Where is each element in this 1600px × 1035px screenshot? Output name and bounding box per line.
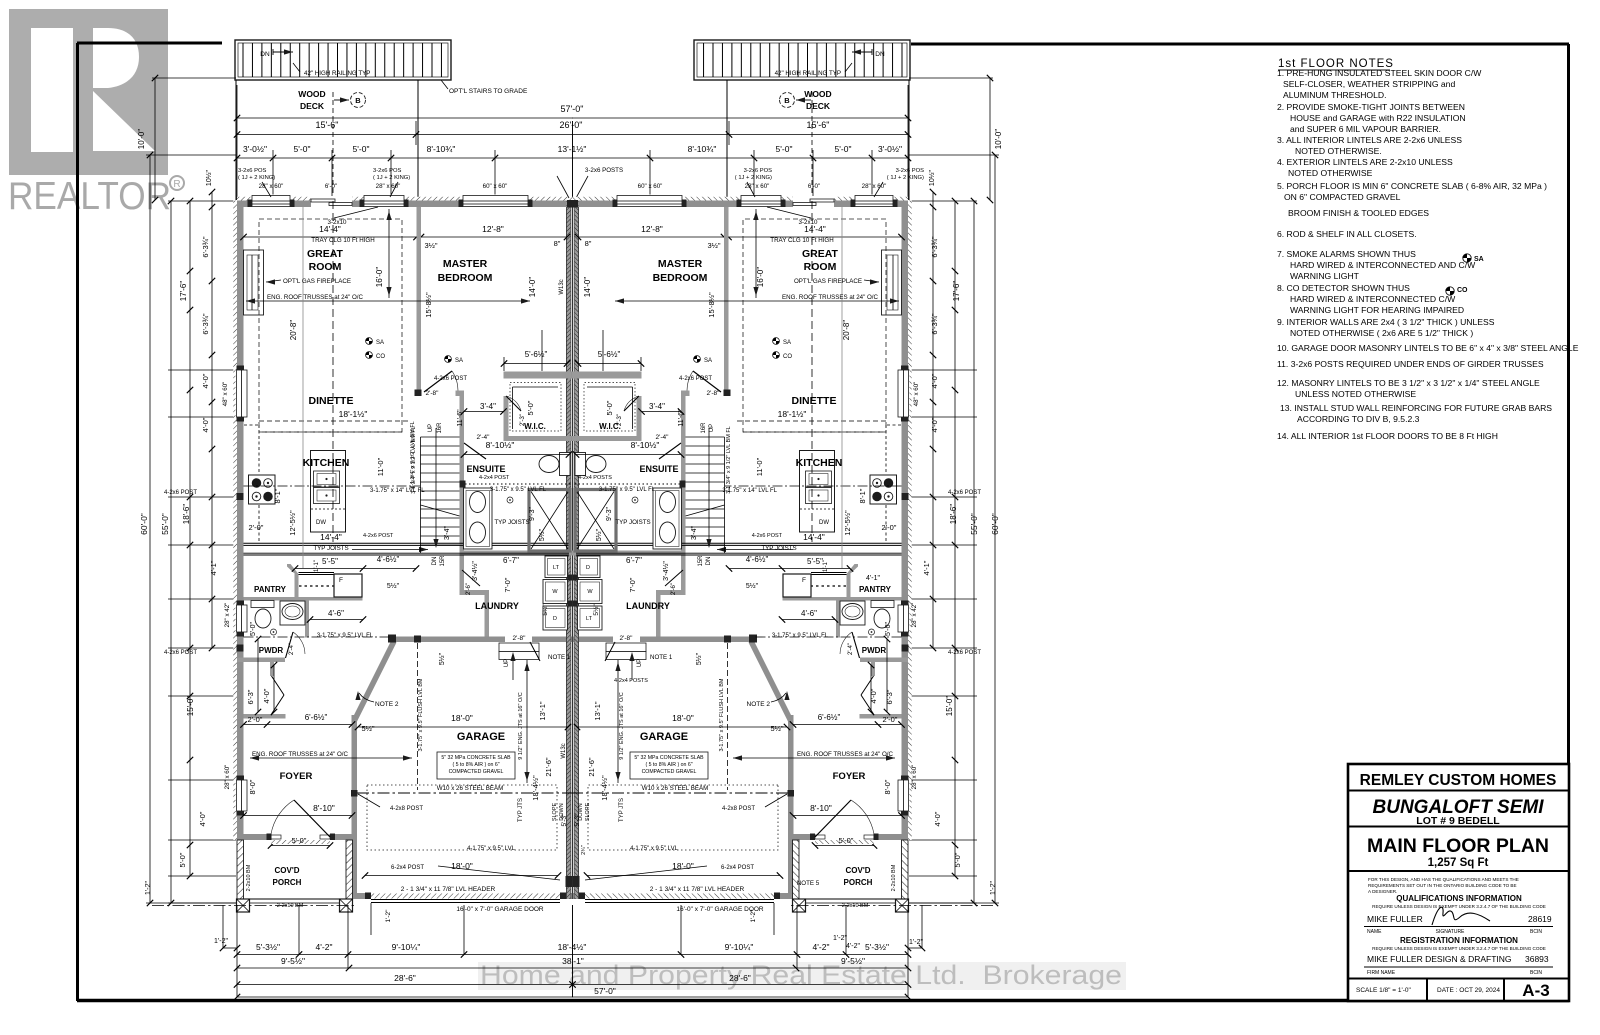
svg-text:1'-2": 1'-2" [750, 909, 757, 923]
svg-text:1'-2": 1'-2" [214, 938, 228, 945]
svg-text:PORCH: PORCH [844, 878, 873, 887]
svg-text:REQUIRE UNLESS DESIGN IS EXEMP: REQUIRE UNLESS DESIGN IS EXEMPT UNDER 3.… [1372, 904, 1546, 909]
svg-text:5'-0": 5'-0" [353, 144, 370, 154]
svg-text:4-2x4 POSTS: 4-2x4 POSTS [578, 475, 612, 481]
svg-text:10½": 10½" [205, 169, 213, 186]
smoke alarm symbols [366, 338, 373, 345]
svg-text:4-2x4 POST: 4-2x4 POST [479, 475, 510, 481]
svg-text:6. ROD & SHELF IN ALL CLOSETS: 6. ROD & SHELF IN ALL CLOSETS. [1277, 229, 1417, 239]
svg-text:SA: SA [783, 340, 791, 346]
svg-text:8'-10¾": 8'-10¾" [427, 144, 456, 154]
svg-text:DINETTE: DINETTE [309, 395, 354, 407]
svg-text:9'-10¼": 9'-10¼" [392, 942, 421, 952]
svg-text:DINETTE: DINETTE [792, 395, 837, 407]
svg-text:9. INTERIOR WALLS ARE 2x4 ( 3: 9. INTERIOR WALLS ARE 2x4 ( 3 1/2" THICK… [1277, 317, 1495, 327]
svg-text:5'-0": 5'-0" [605, 400, 614, 415]
svg-text:3-1.75" x 9.5" LVL FL: 3-1.75" x 9.5" LVL FL [772, 633, 829, 639]
svg-text:4'-2": 4'-2" [316, 942, 333, 952]
svg-text:F: F [802, 577, 806, 584]
svg-text:MASTER: MASTER [658, 258, 703, 270]
opt'l stairs leader [434, 71, 448, 89]
svg-text:2'-6": 2'-6" [671, 583, 677, 595]
svg-text:10½": 10½" [928, 169, 936, 186]
svg-text:3-1.75" x 14" LVL FL: 3-1.75" x 14" LVL FL [722, 488, 777, 494]
svg-text:4'-0": 4'-0" [930, 373, 939, 388]
svg-text:NOTED OTHERWISE: NOTED OTHERWISE [1288, 168, 1373, 178]
svg-text:BEDROOM: BEDROOM [653, 272, 708, 284]
svg-text:4-1.75" x 9.5" LVL: 4-1.75" x 9.5" LVL [467, 846, 516, 852]
svg-text:8'-10½": 8'-10½" [486, 440, 515, 450]
svg-text:60" x 60": 60" x 60" [483, 183, 508, 190]
svg-text:4. EXTERIOR LINTELS ARE 2-2x1: 4. EXTERIOR LINTELS ARE 2-2x10 UNLESS [1277, 157, 1453, 167]
svg-text:8'-10": 8'-10" [810, 803, 832, 813]
svg-text:TYP JTS: TYP JTS [619, 798, 625, 822]
svg-text:16'-0": 16'-0" [756, 267, 765, 288]
svg-text:3-2x6 POS: 3-2x6 POS [744, 168, 772, 174]
svg-text:14'-0": 14'-0" [583, 277, 592, 298]
svg-text:5'-0": 5'-0" [835, 144, 852, 154]
svg-text:LOT # 9 BEDELL: LOT # 9 BEDELL [1416, 815, 1500, 827]
svg-text:18'-6": 18'-6" [949, 504, 958, 525]
svg-text:HARD WIRED & INTERCONNECTED AN: HARD WIRED & INTERCONNECTED AND C/W [1290, 260, 1476, 270]
svg-text:5'-3½": 5'-3½" [256, 942, 280, 952]
svg-text:FIRM NAME: FIRM NAME [1367, 970, 1396, 976]
svg-text:TYP JOISTS: TYP JOISTS [494, 519, 529, 526]
svg-text:REALTOR: REALTOR [8, 175, 171, 218]
svg-text:5'-0": 5'-0" [294, 144, 311, 154]
svg-text:15R: 15R [698, 555, 704, 567]
svg-text:4'-6½": 4'-6½" [377, 555, 400, 564]
svg-text:NOTE 5: NOTE 5 [797, 880, 820, 887]
svg-text:GREAT: GREAT [802, 248, 839, 260]
svg-text:SA: SA [1474, 256, 1484, 263]
svg-text:12. MASONRY LINTELS TO BE 3 1: 12. MASONRY LINTELS TO BE 3 1/2" x 3 1/2… [1277, 378, 1540, 388]
svg-text:5'-0": 5'-0" [776, 144, 793, 154]
svg-text:D: D [586, 565, 590, 571]
svg-text:TYP JOISTS: TYP JOISTS [615, 519, 650, 526]
svg-text:60'-0": 60'-0" [139, 513, 149, 535]
svg-text:28" x 60": 28" x 60" [862, 183, 887, 190]
svg-text:8'-0": 8'-0" [248, 779, 257, 794]
svg-text:3'-4½": 3'-4½" [471, 561, 479, 581]
svg-text:F: F [339, 577, 343, 584]
svg-text:5½": 5½" [361, 724, 374, 733]
svg-text:OPT'L GAS FIREPLACE: OPT'L GAS FIREPLACE [794, 278, 862, 285]
svg-text:3-1.75" x 9.5" LVL FL: 3-1.75" x 9.5" LVL FL [490, 487, 547, 493]
svg-text:DATE : OCT 29, 2024: DATE : OCT 29, 2024 [1437, 987, 1500, 994]
svg-text:DECK: DECK [806, 101, 831, 111]
svg-text:5'-5": 5'-5" [322, 557, 338, 566]
svg-text:TRAY CLG 10 Ft HIGH: TRAY CLG 10 Ft HIGH [770, 237, 833, 244]
svg-text:3'-0½": 3'-0½" [243, 144, 267, 154]
svg-text:38'-1": 38'-1" [562, 956, 584, 966]
svg-text:4-2x6 POST: 4-2x6 POST [948, 650, 981, 656]
svg-text:REGISTRATION INFORMATION: REGISTRATION INFORMATION [1400, 936, 1518, 945]
svg-text:WOOD: WOOD [804, 89, 831, 99]
svg-text:11'-6": 11'-6" [678, 409, 685, 427]
svg-text:3'-0½": 3'-0½" [878, 144, 902, 154]
svg-text:DN: DN [260, 51, 270, 58]
svg-text:5'-0": 5'-0" [526, 400, 535, 415]
svg-text:18'-0": 18'-0" [451, 861, 473, 871]
svg-text:ENG. ROOF TRUSSES at 24" O/C: ENG. ROOF TRUSSES at 24" O/C [267, 294, 363, 301]
svg-text:5'-3": 5'-3" [561, 813, 568, 827]
svg-text:4'-6": 4'-6" [328, 609, 344, 618]
svg-text:3-1.75" x 9.5" LVL FL: 3-1.75" x 9.5" LVL FL [599, 487, 656, 493]
svg-text:1'-2": 1'-2" [833, 935, 847, 942]
svg-text:5'-6½": 5'-6½" [598, 350, 621, 359]
svg-text:15'-0": 15'-0" [186, 696, 195, 717]
svg-text:COV'D: COV'D [845, 866, 870, 875]
svg-text:2-2x10 BM: 2-2x10 BM [277, 903, 304, 909]
svg-text:7'-0": 7'-0" [628, 577, 637, 592]
svg-text:20'-8": 20'-8" [289, 320, 298, 341]
svg-text:MIKE FULLER DESIGN & DRAFTING: MIKE FULLER DESIGN & DRAFTING [1367, 954, 1512, 964]
svg-text:6'-7": 6'-7" [503, 556, 519, 565]
svg-text:REQUIREMENTS SET OUT IN THE ON: REQUIREMENTS SET OUT IN THE ONTARIO BUIL… [1368, 883, 1517, 888]
svg-text:18'-4½": 18'-4½" [600, 775, 609, 801]
svg-text:4'-1": 4'-1" [866, 575, 880, 582]
svg-text:5'-0": 5'-0" [953, 852, 962, 867]
svg-text:4-2x6 POST: 4-2x6 POST [948, 490, 981, 496]
left unit plan graphics [146, 40, 588, 1000]
svg-text:NOTE 2: NOTE 2 [375, 701, 399, 708]
svg-text:6-2x4 POST: 6-2x4 POST [721, 865, 754, 871]
svg-text:18'-6": 18'-6" [182, 504, 191, 525]
svg-text:3'-4½": 3'-4½" [662, 561, 670, 581]
svg-text:5" 32 MPa CONCRETE SLAB: 5" 32 MPa CONCRETE SLAB [634, 755, 704, 761]
svg-text:UNLESS NOTED OTHERWISE: UNLESS NOTED OTHERWISE [1295, 389, 1416, 399]
svg-text:4-1.75" x 9.5" LVL: 4-1.75" x 9.5" LVL [630, 846, 679, 852]
svg-text:SLOPE: SLOPE [585, 802, 591, 821]
svg-text:NOTE 2: NOTE 2 [747, 701, 771, 708]
svg-text:16R: 16R [437, 422, 443, 434]
svg-text:2'-0": 2'-0" [883, 715, 898, 724]
svg-text:13'-1": 13'-1" [538, 701, 547, 720]
svg-text:28" x 60": 28" x 60" [745, 183, 770, 190]
svg-text:2'-8": 2'-8" [620, 635, 634, 642]
svg-text:GARAGE: GARAGE [457, 731, 505, 743]
svg-text:DW: DW [819, 520, 829, 526]
svg-text:A-3: A-3 [1522, 981, 1549, 1000]
svg-text:TYP JOISTS: TYP JOISTS [761, 545, 796, 552]
svg-text:55'-0": 55'-0" [160, 513, 170, 535]
svg-text:2'-0": 2'-0" [248, 715, 263, 724]
svg-text:28" x 42": 28" x 42" [911, 603, 918, 628]
svg-text:UP: UP [709, 424, 715, 432]
svg-text:UP: UP [637, 659, 643, 667]
svg-text:W: W [552, 589, 558, 595]
svg-text:2'-0": 2'-0" [249, 523, 264, 532]
svg-text:16R: 16R [701, 422, 707, 434]
svg-text:4'-1": 4'-1" [209, 560, 218, 575]
svg-text:4-2x6 POST: 4-2x6 POST [363, 533, 394, 539]
svg-text:CO: CO [783, 354, 792, 360]
svg-text:REMLEY CUSTOM HOMES: REMLEY CUSTOM HOMES [1360, 772, 1557, 789]
svg-text:5'-0": 5'-0" [839, 836, 854, 845]
brokerage watermark [478, 960, 1126, 990]
svg-text:2'-8": 2'-8" [707, 390, 721, 397]
svg-text:6'-3¾": 6'-3¾" [201, 236, 210, 258]
svg-text:WARNING LIGHT FOR HEARING IMPA: WARNING LIGHT FOR HEARING IMPAIRED [1290, 305, 1464, 315]
svg-text:UP: UP [428, 424, 434, 432]
svg-text:3-1.75" x 9.5" LVL FL: 3-1.75" x 9.5" LVL FL [317, 633, 374, 639]
svg-text:GREAT: GREAT [307, 248, 344, 260]
svg-text:3-1.75" x 14" LVL FL: 3-1.75" x 14" LVL FL [370, 488, 425, 494]
svg-text:2'-3": 2'-3" [617, 414, 623, 426]
svg-text:HOUSE and GARAGE with R22 INSU: HOUSE and GARAGE with R22 INSULATION [1290, 113, 1466, 123]
svg-text:15'-8½": 15'-8½" [424, 292, 433, 318]
svg-text:2 - 1 3/4" x 11 7/8" LVL HEADE: 2 - 1 3/4" x 11 7/8" LVL HEADER [401, 886, 496, 893]
svg-text:5½": 5½" [770, 724, 783, 733]
svg-text:9 1/2" ENG. JTS at 16" O/C: 9 1/2" ENG. JTS at 16" O/C [518, 692, 524, 760]
svg-text:12'-5½": 12'-5½" [288, 510, 297, 536]
svg-text:4'-2": 4'-2" [813, 942, 830, 952]
svg-text:4-2x6 POST: 4-2x6 POST [752, 533, 783, 539]
svg-text:FOR THIS DESIGN, AND HAS THE Q: FOR THIS DESIGN, AND HAS THE QUALIFICATI… [1368, 877, 1519, 882]
svg-text:SA: SA [376, 340, 384, 346]
svg-text:12'-8": 12'-8" [641, 224, 663, 234]
svg-text:4-2x6 POST: 4-2x6 POST [434, 376, 467, 382]
svg-text:16'-0" x 7'-0" GARAGE DOOR: 16'-0" x 7'-0" GARAGE DOOR [456, 906, 544, 913]
svg-text:6'-0": 6'-0" [325, 183, 337, 190]
svg-text:3-1 3/4" x 9 1/2" LVL BM FL: 3-1 3/4" x 9 1/2" LVL BM FL [726, 426, 732, 494]
svg-text:3½": 3½" [707, 241, 720, 250]
svg-text:17'-6": 17'-6" [952, 281, 961, 302]
svg-text:ENG. ROOF TRUSSES at 24" O/C: ENG. ROOF TRUSSES at 24" O/C [252, 751, 348, 758]
svg-text:SA: SA [704, 358, 712, 364]
notes CO symbol [1446, 287, 1454, 295]
svg-text:2-2x10 BM: 2-2x10 BM [246, 864, 252, 891]
svg-text:OPT'L STAIRS TO GRADE: OPT'L STAIRS TO GRADE [449, 88, 528, 95]
svg-text:4'-0": 4'-0" [869, 688, 878, 703]
svg-text:8'-10": 8'-10" [313, 803, 335, 813]
svg-text:5'-3½": 5'-3½" [865, 942, 889, 952]
svg-text:6'-3¾": 6'-3¾" [930, 236, 939, 258]
svg-text:( 5 to 8% AIR ) on 6": ( 5 to 8% AIR ) on 6" [645, 762, 692, 768]
svg-text:11'-0": 11'-0" [755, 457, 764, 476]
svg-text:17'-6": 17'-6" [179, 281, 188, 302]
svg-text:26'-0": 26'-0" [560, 120, 583, 130]
svg-text:3'-4": 3'-4" [480, 402, 496, 411]
svg-text:KITCHEN: KITCHEN [303, 457, 350, 469]
svg-text:2'-4": 2'-4" [289, 643, 295, 655]
svg-text:B: B [355, 96, 361, 105]
svg-text:5½": 5½" [595, 528, 603, 541]
notes SA symbol [1463, 254, 1471, 262]
svg-text:8'-1": 8'-1" [273, 488, 282, 503]
svg-text:4-2x4 POSTS: 4-2x4 POSTS [614, 678, 648, 684]
svg-text:6'-6½": 6'-6½" [818, 713, 841, 722]
svg-text:14'-4": 14'-4" [319, 224, 341, 234]
svg-text:5'-0": 5'-0" [292, 836, 307, 845]
svg-text:10'-0": 10'-0" [137, 129, 146, 150]
svg-text:15'-6": 15'-6" [316, 120, 339, 130]
svg-text:REQUIRE UNLESS DESIGN IS EXEMP: REQUIRE UNLESS DESIGN IS EXEMPT UNDER 3.… [1372, 946, 1546, 951]
svg-text:4'-0": 4'-0" [933, 811, 942, 826]
svg-text:14'-0": 14'-0" [528, 277, 537, 298]
svg-text:6'-3": 6'-3" [885, 689, 894, 704]
svg-text:LT: LT [553, 565, 560, 571]
svg-text:GARAGE: GARAGE [640, 731, 688, 743]
svg-text:21'-6": 21'-6" [544, 757, 553, 776]
svg-text:28" x 42": 28" x 42" [224, 603, 231, 628]
svg-text:W: W [587, 589, 593, 595]
svg-text:DN: DN [432, 557, 438, 566]
svg-text:TYP JOISTS: TYP JOISTS [313, 545, 348, 552]
svg-text:1'-1": 1'-1" [314, 560, 320, 572]
svg-text:13. INSTALL STUD WALL REINFOR: 13. INSTALL STUD WALL REINFORCING FOR FU… [1280, 403, 1552, 413]
REALTOR watermark logo [8, 9, 184, 218]
svg-text:28619: 28619 [1528, 914, 1552, 924]
svg-text:( 5 to 8% AIR ) on 6": ( 5 to 8% AIR ) on 6" [452, 762, 499, 768]
svg-text:ENG. ROOF TRUSSES at 24" O/C: ENG. ROOF TRUSSES at 24" O/C [797, 751, 893, 758]
svg-text:3-2x6 POS: 3-2x6 POS [373, 168, 401, 174]
svg-text:( 1J + 2 KING): ( 1J + 2 KING) [238, 175, 275, 181]
svg-text:12'-5½": 12'-5½" [843, 510, 852, 536]
svg-text:W10 x 26 STEEL BEAM: W10 x 26 STEEL BEAM [437, 785, 503, 792]
svg-text:5'-3": 5'-3" [574, 813, 581, 827]
svg-text:3-1.75" x 9.5" FLUSH LVL BM: 3-1.75" x 9.5" FLUSH LVL BM [719, 678, 725, 751]
svg-text:PANTRY: PANTRY [859, 585, 892, 594]
svg-text:16'-0": 16'-0" [375, 267, 384, 288]
svg-text:4'-0": 4'-0" [930, 417, 939, 432]
svg-text:WARNING LIGHT: WARNING LIGHT [1290, 271, 1360, 281]
svg-text:SCALE 1/8" = 1'-0": SCALE 1/8" = 1'-0" [1356, 987, 1412, 994]
svg-text:57'-0": 57'-0" [594, 986, 616, 996]
svg-text:14'-4": 14'-4" [320, 532, 342, 542]
svg-text:60" x 60": 60" x 60" [638, 183, 663, 190]
svg-text:CO: CO [1457, 287, 1468, 294]
svg-text:TYP JTS: TYP JTS [518, 798, 524, 822]
svg-text:9'-5½": 9'-5½" [841, 956, 865, 966]
svg-text:8. CO DETECTOR SHOWN THUS: 8. CO DETECTOR SHOWN THUS [1277, 283, 1410, 293]
svg-text:4-2x6 POST: 4-2x6 POST [679, 376, 712, 382]
svg-text:1'-2": 1'-2" [385, 909, 392, 923]
svg-text:1'-1": 1'-1" [823, 560, 829, 572]
svg-text:2-2x10 BM: 2-2x10 BM [842, 903, 869, 909]
svg-text:D: D [553, 616, 557, 622]
svg-text:9'-3": 9'-3" [606, 507, 613, 521]
svg-text:5'-6½": 5'-6½" [525, 350, 548, 359]
svg-text:6'-7": 6'-7" [626, 556, 642, 565]
svg-text:4'-0": 4'-0" [198, 811, 207, 826]
svg-text:W13c: W13c [559, 279, 565, 294]
svg-text:ON 6" COMPACTED GRAVEL: ON 6" COMPACTED GRAVEL [1284, 192, 1401, 202]
svg-text:1. PRE-HUNG INSULATED STEEL S: 1. PRE-HUNG INSULATED STEEL SKIN DOOR C/… [1277, 68, 1482, 78]
svg-text:ACCORDING TO DIV B, 9.5.2.3: ACCORDING TO DIV B, 9.5.2.3 [1297, 414, 1420, 424]
svg-text:ENSUITE: ENSUITE [466, 464, 505, 474]
svg-text:11'-6": 11'-6" [457, 409, 464, 427]
svg-text:48" x 60": 48" x 60" [913, 382, 920, 407]
svg-text:11. 3-2x6 POSTS REQUIRED UNDE: 11. 3-2x6 POSTS REQUIRED UNDER ENDS OF G… [1277, 359, 1544, 369]
svg-text:MAIN FLOOR PLAN: MAIN FLOOR PLAN [1367, 835, 1549, 857]
svg-text:14'-4": 14'-4" [804, 224, 826, 234]
svg-text:W13c: W13c [561, 743, 567, 758]
svg-text:57'-0": 57'-0" [561, 104, 584, 114]
svg-text:5½": 5½" [592, 604, 600, 616]
svg-text:9'-5½": 9'-5½" [281, 956, 305, 966]
svg-text:PORCH: PORCH [273, 878, 302, 887]
svg-text:5. PORCH FLOOR IS MIN 6" CONC: 5. PORCH FLOOR IS MIN 6" CONCRETE SLAB (… [1277, 181, 1547, 191]
svg-text:W.I.C.: W.I.C. [524, 422, 546, 431]
svg-text:15'-0": 15'-0" [945, 696, 954, 717]
svg-text:3-1 3/4" x 9 1/2" LVL BM FL: 3-1 3/4" x 9 1/2" LVL BM FL [410, 421, 416, 489]
svg-text:2. PROVIDE SMOKE-TIGHT JOINTS: 2. PROVIDE SMOKE-TIGHT JOINTS BETWEEN [1277, 102, 1465, 112]
svg-text:( 1J + 2 KING): ( 1J + 2 KING) [373, 175, 410, 181]
svg-text:UP: UP [504, 659, 510, 667]
svg-text:3½": 3½" [424, 241, 437, 250]
svg-text:ROOM: ROOM [804, 261, 837, 273]
svg-text:QUALIFICATIONS INFORMATION: QUALIFICATIONS INFORMATION [1396, 894, 1522, 903]
svg-text:18'-0": 18'-0" [672, 713, 694, 723]
svg-text:36893: 36893 [1525, 954, 1549, 964]
svg-text:12'-8": 12'-8" [482, 224, 504, 234]
svg-text:28" x 60": 28" x 60" [376, 183, 401, 190]
svg-text:1'-2": 1'-2" [909, 939, 923, 946]
svg-text:8'-0": 8'-0" [883, 779, 892, 794]
svg-text:LAUNDRY: LAUNDRY [475, 601, 519, 611]
svg-text:COMPACTED GRAVEL: COMPACTED GRAVEL [642, 769, 697, 775]
svg-text:NOTED OTHERWISE.: NOTED OTHERWISE. [1295, 146, 1382, 156]
svg-text:4'-6½": 4'-6½" [746, 555, 769, 564]
svg-text:A DESIGNER.: A DESIGNER. [1368, 889, 1397, 894]
svg-text:14. ALL INTERIOR 1st FLOOR DO: 14. ALL INTERIOR 1st FLOOR DOORS TO BE 8… [1277, 431, 1498, 441]
svg-text:55'-0": 55'-0" [969, 513, 979, 535]
svg-text:ROOM: ROOM [309, 261, 342, 273]
svg-text:3-2x6 POS: 3-2x6 POS [238, 168, 266, 174]
svg-text:10'-0": 10'-0" [994, 129, 1003, 150]
svg-text:1,257 Sq Ft: 1,257 Sq Ft [1428, 857, 1489, 869]
svg-text:9 1/2" ENG. JTS at 16" O/C: 9 1/2" ENG. JTS at 16" O/C [619, 692, 625, 760]
svg-text:42" HIGH RAILING TYP: 42" HIGH RAILING TYP [304, 70, 370, 77]
svg-text:20'-8": 20'-8" [842, 320, 851, 341]
svg-text:3-2x6 POSTS: 3-2x6 POSTS [585, 167, 623, 174]
svg-text:28'-6": 28'-6" [394, 973, 416, 983]
svg-text:42" HIGH RAILING TYP: 42" HIGH RAILING TYP [775, 70, 841, 77]
svg-text:R: R [173, 179, 180, 190]
svg-text:MIKE FULLER: MIKE FULLER [1367, 914, 1423, 924]
svg-text:( 1J + 2 KING): ( 1J + 2 KING) [887, 175, 924, 181]
svg-text:DN: DN [706, 557, 712, 566]
svg-text:15'-6": 15'-6" [807, 120, 830, 130]
svg-text:SIGNATURE: SIGNATURE [1436, 929, 1465, 935]
svg-text:2-2x10 BM: 2-2x10 BM [891, 864, 897, 891]
svg-text:28" x 60": 28" x 60" [224, 765, 231, 790]
svg-text:PWDR: PWDR [862, 646, 887, 655]
svg-text:1'-2": 1'-2" [145, 881, 152, 895]
svg-text:BCIN: BCIN [1530, 970, 1542, 976]
svg-text:4-2x6 POST: 4-2x6 POST [164, 650, 197, 656]
svg-text:4-2x6 POST: 4-2x6 POST [164, 490, 197, 496]
svg-text:9'-3": 9'-3" [529, 507, 536, 521]
svg-text:6'-3¾": 6'-3¾" [201, 313, 210, 335]
svg-text:CO: CO [376, 354, 385, 360]
svg-text:and SUPER 6 MIL VAPOUR BARRIER: and SUPER 6 MIL VAPOUR BARRIER. [1290, 124, 1441, 134]
svg-text:HARD WIRED & INTERCONNECTED C/: HARD WIRED & INTERCONNECTED C/W [1290, 294, 1456, 304]
svg-text:5½": 5½" [746, 582, 759, 590]
svg-text:8": 8" [585, 239, 592, 248]
svg-text:6'-0": 6'-0" [808, 183, 820, 190]
svg-text:8'-1": 8'-1" [858, 488, 867, 503]
right unit plan graphics (mirrored) [557, 40, 999, 1000]
svg-text:SELF-CLOSER, WEATHER STRIPPING: SELF-CLOSER, WEATHER STRIPPING and [1283, 79, 1455, 89]
svg-text:6'-3": 6'-3" [246, 689, 255, 704]
svg-text:ALUMINUM THRESHOLD.: ALUMINUM THRESHOLD. [1283, 90, 1386, 100]
svg-text:COMPACTED GRAVEL: COMPACTED GRAVEL [449, 769, 504, 775]
svg-text:2'-3": 2'-3" [520, 414, 526, 426]
svg-text:18'-4½": 18'-4½" [531, 775, 540, 801]
